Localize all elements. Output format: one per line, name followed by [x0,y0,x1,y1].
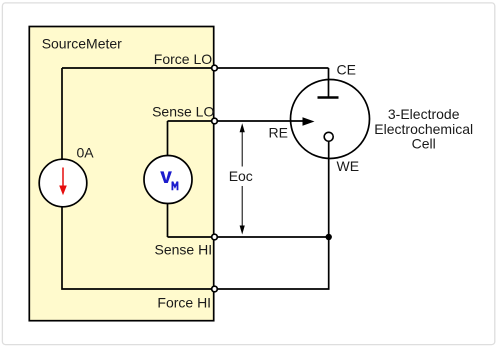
svg-text:RE: RE [269,125,288,141]
terminal Sense HI [212,234,218,240]
svg-text:SourceMeter: SourceMeter [42,35,122,51]
Eoc measurement arrow [241,130,243,228]
svg-text:Cell: Cell [412,135,436,151]
RE arrow head [303,117,315,126]
voltmeter VM [144,156,192,204]
svg-text:Force HI: Force HI [157,294,211,310]
wire Sense HI line [168,236,329,238]
wire left riser to current source [61,68,63,160]
terminal Force HI [212,286,218,292]
current source 0A [39,159,87,207]
wire WE drop [328,141,330,237]
svg-text:WE: WE [337,158,360,174]
svg-text:Sense LO: Sense LO [152,104,214,120]
wire Force HI to cell riser [214,237,329,289]
svg-text:Eoc: Eoc [229,168,253,184]
wire CE drop [328,68,330,97]
wire Sense LO to RE [168,120,304,122]
electrochemical cell circle [291,80,370,159]
svg-text:Electrochemical: Electrochemical [374,121,473,137]
svg-text:Force LO: Force LO [154,51,212,67]
wire current source to Force HI [62,206,214,289]
wire Force LO horizontal [62,67,329,69]
svg-text:3-Electrode: 3-Electrode [388,106,460,122]
svg-text:0A: 0A [77,145,95,161]
terminal Force LO [212,65,218,71]
red current arrow [62,168,64,188]
SourceMeter box [29,27,213,321]
svg-text:CE: CE [337,62,356,78]
junction WE / Sense HI [326,234,332,240]
WE electrode circle [324,132,333,141]
wire VM bottom riser [167,203,169,237]
svg-text:Sense HI: Sense HI [155,241,213,257]
wire VM top riser [167,121,169,156]
CE electrode plate [318,96,339,99]
terminal Sense LO [212,118,218,124]
